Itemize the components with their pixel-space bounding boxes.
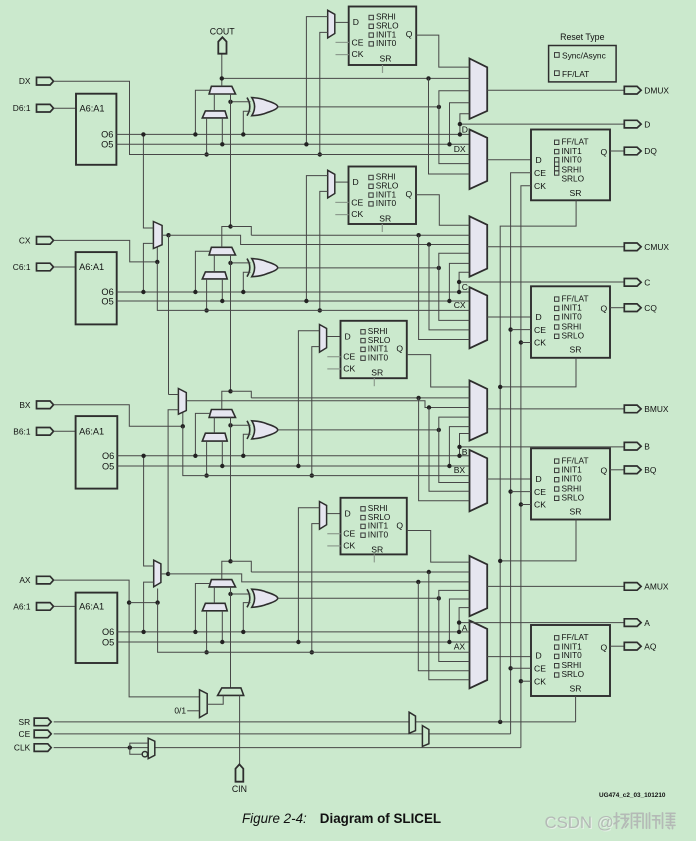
- checkbox INIT0 A5FF-C: [369, 202, 373, 206]
- pin SR input: [34, 718, 51, 726]
- wire O5 feeder column C: [449, 263, 469, 301]
- wire AX row: [158, 603, 470, 653]
- wire MUXCY C select from O6: [195, 251, 210, 292]
- arrow DQ output pin: [624, 147, 641, 155]
- wire DMUX output: [487, 89, 624, 91]
- inverter bubble CLK: [142, 752, 147, 757]
- svg-text:CK: CK: [534, 500, 546, 510]
- junction O6/XOR A: [241, 630, 245, 634]
- checkbox SRLO A5FF-D: [369, 24, 373, 28]
- wire A5FF-A mux in1 from O5: [298, 508, 319, 642]
- wire B CO branch: [231, 391, 252, 398]
- junction O6 select C: [193, 290, 197, 294]
- wire F7AMUX select: [157, 589, 159, 603]
- wire C CO branch: [231, 227, 252, 236]
- flip-flop A5FF-B block: [341, 321, 407, 378]
- svg-text:SR: SR: [380, 53, 392, 63]
- bus CE vertical: [511, 173, 531, 734]
- svg-text:UG474_c2_03_101210: UG474_c2_03_101210: [599, 792, 666, 799]
- svg-text:CK: CK: [343, 541, 355, 551]
- wire DI-mux B out to MUXCY: [213, 417, 215, 433]
- wire AX pin route: [54, 580, 200, 697]
- svg-text:AMUX: AMUX: [644, 582, 669, 592]
- wire DI-mux C left leg to CX row: [206, 279, 208, 311]
- gray stub SR A5FF-A: [373, 554, 375, 562]
- arrow D output pin: [624, 120, 641, 128]
- mux carry-DI D: [202, 111, 227, 118]
- wire CLK to bubble: [130, 748, 142, 755]
- svg-text:CX: CX: [19, 235, 31, 245]
- checkbox INIT1 BFF: [555, 468, 559, 472]
- junction O6 select D: [193, 132, 197, 136]
- junction carry/XOR A: [228, 592, 232, 596]
- junction O6/XOR B: [241, 454, 245, 458]
- wire O6 feeder column A: [459, 608, 469, 632]
- wire XOR D bottom input from O6: [243, 111, 250, 134]
- wire XOR A output: [278, 597, 439, 599]
- mux BFFMUX: [470, 450, 488, 511]
- wire AMUX output: [487, 585, 624, 587]
- svg-text:A6:A1: A6:A1: [79, 262, 104, 272]
- svg-text:DX: DX: [19, 76, 31, 86]
- pin A6:1 input: [37, 603, 54, 611]
- pin DX input: [37, 77, 54, 85]
- wire O5 row B: [117, 465, 469, 467]
- junction AX select: [155, 600, 159, 604]
- wire A5FF-C mux out to D: [335, 181, 349, 183]
- svg-text:Sync/Async: Sync/Async: [562, 51, 606, 61]
- wire O6 row D: [116, 133, 469, 135]
- svg-text:D: D: [353, 177, 359, 187]
- svg-text:CK: CK: [534, 676, 546, 686]
- junction DI left A: [204, 650, 208, 654]
- svg-text:O6: O6: [101, 130, 113, 140]
- svg-text:CMUX: CMUX: [644, 242, 669, 252]
- svg-text:COUT: COUT: [210, 26, 236, 36]
- pin D6:1 input: [37, 104, 54, 112]
- junction CO feeder A: [427, 570, 431, 574]
- wire CE rail: [54, 733, 511, 735]
- junction F7A out: [166, 572, 170, 576]
- wire CIN to PRECYINIT: [239, 695, 241, 764]
- XOR gate XORCY A: [247, 589, 250, 607]
- junction F7A to A FFmux: [416, 580, 420, 584]
- wire carry D MUXCY out to COUT: [221, 54, 223, 87]
- mux carry-DI A: [202, 603, 227, 611]
- checkbox SRHI AFF: [555, 664, 559, 668]
- wire CO line B: [251, 397, 469, 399]
- checkbox SRHI A5FF-A: [361, 507, 365, 511]
- junction DI left C: [204, 308, 208, 312]
- wire MUXCY B select from O6: [195, 413, 210, 455]
- mux DOUTMUX: [470, 59, 488, 119]
- checkbox SRLO A5FF-C: [369, 184, 373, 188]
- arrow CQ output pin: [624, 304, 641, 312]
- svg-text:SRLO: SRLO: [562, 174, 585, 184]
- checkbox SRHI BFF: [555, 487, 559, 491]
- svg-text:SR: SR: [570, 345, 582, 355]
- wire CX pin route: [54, 240, 158, 262]
- svg-text:FF/LAT: FF/LAT: [562, 69, 589, 79]
- junction C O6 to F7B: [141, 290, 145, 294]
- wire F7B out to C muxes: [169, 235, 470, 244]
- wire SR tap CFF: [500, 358, 576, 387]
- wire A5FF-A mux in2 from AX row: [312, 524, 320, 653]
- wire 0/1 mux out to PRECYINIT: [207, 695, 223, 704]
- junction CK tap B: [519, 502, 523, 506]
- junction O5/A feeder: [296, 640, 300, 644]
- svg-text:D: D: [462, 124, 468, 134]
- svg-text:SR: SR: [570, 188, 582, 198]
- svg-text:O6: O6: [102, 627, 114, 637]
- svg-text:A: A: [462, 623, 468, 633]
- wire F8MUX in1 from F7B: [169, 394, 179, 396]
- svg-text:SR: SR: [19, 717, 31, 727]
- wire A CO branch: [231, 561, 252, 572]
- wire CMUX output: [487, 246, 624, 248]
- svg-text:O5: O5: [101, 296, 113, 306]
- mux SR inline: [409, 712, 415, 733]
- junction AX-row feeder: [310, 650, 314, 654]
- svg-text:INIT0: INIT0: [562, 650, 583, 660]
- wire carry B to C: [222, 255, 231, 410]
- wire CO line A: [251, 571, 469, 573]
- checkbox INIT1 AFF: [555, 645, 559, 649]
- gray stub CE A5FF-D: [336, 41, 349, 43]
- wire XOR feeder up D: [439, 91, 470, 107]
- mux F8MUX: [178, 389, 186, 415]
- junction O5 column D: [447, 142, 451, 146]
- checkbox SRHI A5FF-B: [361, 330, 365, 334]
- junction outline/B: [457, 445, 461, 449]
- junction O5 column A: [447, 640, 451, 644]
- wire BFFMUX out to FF D: [487, 478, 531, 480]
- junction CX-row feeder: [318, 308, 322, 312]
- svg-text:SR: SR: [371, 368, 383, 378]
- checkbox SRLO CFF: [555, 334, 559, 338]
- checkbox INIT1 A5FF-A: [361, 524, 365, 528]
- junction SR tap C: [498, 385, 502, 389]
- junction DI left B: [204, 473, 208, 477]
- wire A output line: [459, 622, 624, 624]
- junction CK tap A: [519, 679, 523, 683]
- wire F7A out to A muxes: [168, 574, 469, 582]
- wire O6 feeder column B: [460, 434, 470, 456]
- svg-text:A6:1: A6:1: [13, 601, 31, 611]
- wire O5 feeder column B: [449, 427, 469, 466]
- gray stub SR A5FF-B: [373, 378, 375, 386]
- wire XOR A top input from carry: [231, 593, 251, 595]
- junction O5 column B: [447, 464, 451, 468]
- junction O5/D feeder: [304, 142, 308, 146]
- wire CO feeder down D: [429, 78, 470, 174]
- wire DI-mux B right leg to O5: [221, 441, 223, 466]
- checkbox INIT1 A5FF-D: [369, 33, 373, 37]
- wire O6 feeder column D: [460, 114, 470, 135]
- gray stub CE A5FF-C: [335, 201, 348, 203]
- gray stub CK A5FF-A: [327, 545, 340, 547]
- wire CX row: [157, 262, 469, 311]
- svg-text:INIT0: INIT0: [562, 474, 583, 484]
- flip-flop/latch DFF block: [531, 130, 610, 201]
- junction C carry-up: [228, 224, 232, 228]
- wire DI-mux A out to MUXCY: [213, 587, 215, 603]
- wire B output line: [460, 446, 625, 448]
- checkbox INIT1 DFF: [555, 149, 559, 153]
- junction O5 column C: [447, 299, 451, 303]
- wire A5FF-A mux out to D: [327, 513, 341, 515]
- wire CFFMUX out to FF D: [487, 316, 531, 318]
- checkbox INIT0 A5FF-A: [361, 533, 365, 537]
- junction CO feeder C: [416, 233, 420, 237]
- svg-text:INIT0: INIT0: [376, 38, 397, 48]
- junction AX branch: [127, 600, 131, 604]
- svg-text:D: D: [536, 651, 542, 661]
- pin AX input: [37, 576, 54, 584]
- junction CX select: [155, 260, 159, 264]
- wire Q DFF to DQ arrow: [610, 150, 624, 152]
- wire Q A5FF-C to outmux: [416, 195, 470, 225]
- wire F8 feeder down B: [429, 408, 470, 492]
- junction carry/XOR C: [228, 261, 232, 265]
- svg-text:Q: Q: [396, 344, 403, 354]
- checkbox INIT0 A5FF-B: [361, 356, 365, 360]
- svg-text:CE: CE: [534, 168, 546, 178]
- mux CFFMUX: [470, 287, 488, 348]
- junction XOR-out feeder A: [437, 596, 441, 600]
- junction CE tap C: [508, 327, 512, 331]
- wire CO line C: [251, 234, 469, 236]
- wire XOR feeder up B: [439, 417, 470, 430]
- svg-text:CE: CE: [534, 325, 546, 335]
- checkbox INIT1 A5FF-B: [361, 347, 365, 351]
- wire DI-mux A right leg to O5: [221, 611, 223, 642]
- junction BX-row feeder: [310, 473, 314, 477]
- wire CO line D: [222, 77, 470, 79]
- svg-text:CLK: CLK: [14, 743, 31, 753]
- wire BX pin route: [54, 405, 183, 427]
- junction O6 column A: [457, 630, 461, 634]
- wire O5 row D: [116, 143, 469, 145]
- checkbox FF/LAT DFF: [555, 140, 559, 144]
- svg-text:Q: Q: [601, 304, 608, 314]
- junction D CO: [220, 76, 224, 80]
- wire CO feeder down C: [419, 235, 470, 339]
- junction D O6 to F7B: [141, 132, 145, 136]
- junction O6 select B: [193, 454, 197, 458]
- mux A5FF-B input select: [320, 325, 327, 353]
- checkbox INIT1 CFF: [555, 306, 559, 310]
- svg-text:CE: CE: [351, 197, 363, 207]
- svg-text:A: A: [644, 618, 650, 628]
- svg-text:AX: AX: [454, 642, 466, 652]
- svg-text:SR: SR: [570, 683, 582, 693]
- wire carry C to D: [222, 94, 231, 247]
- wire MUXCY D select from O6: [195, 90, 210, 134]
- wire DI-mux A left leg to AX row: [206, 611, 208, 653]
- svg-text:A6:A1: A6:A1: [80, 103, 105, 113]
- junction O6 select A: [193, 630, 197, 634]
- wire O6 feeder column C: [459, 272, 469, 292]
- wire XOR C output: [278, 267, 439, 269]
- svg-text:Q: Q: [396, 521, 403, 531]
- checkbox FF/LAT AFF: [555, 636, 559, 640]
- wire F7BMUX select: [156, 247, 158, 262]
- flip-flop/latch AFF block: [531, 625, 610, 696]
- junction XOR-out feeder D: [437, 105, 441, 109]
- mux BOUTMUX: [470, 380, 488, 440]
- svg-text:CK: CK: [351, 209, 363, 219]
- wire F7B out down to F8: [168, 235, 170, 394]
- mux carry-DI C: [202, 272, 227, 279]
- wire CK tap AFF: [521, 680, 531, 682]
- wire F7AMUX in1 from B O6: [144, 456, 154, 566]
- bus SR vertical: [500, 200, 576, 722]
- checkbox SRHI A5FF-D: [369, 15, 373, 19]
- junction DX-row feeder: [318, 152, 322, 156]
- wire O5 row A: [117, 641, 469, 643]
- wire A5FF-B mux out to D: [327, 336, 341, 338]
- wire F7AMUX output: [161, 573, 168, 575]
- svg-text:C6:1: C6:1: [13, 262, 31, 272]
- pin C6:1 input: [37, 263, 54, 271]
- wire F7AMUX in2 from A O6: [144, 582, 154, 632]
- wire Q CFF to CQ arrow: [610, 307, 624, 309]
- wire F7BMUX in2 from C O6: [143, 243, 153, 292]
- wire Q BFF to BQ arrow: [610, 469, 624, 471]
- checkbox FF/LAT CFF: [555, 297, 559, 301]
- junction DI right C: [220, 299, 224, 303]
- svg-text:D: D: [345, 508, 351, 518]
- svg-text:INIT0: INIT0: [376, 198, 397, 208]
- checkbox INIT0 A5FF-D: [369, 42, 373, 46]
- wire XOR C bottom input from O6: [243, 272, 250, 292]
- wire carry A to B: [222, 417, 231, 579]
- svg-text:SRLO: SRLO: [562, 330, 585, 340]
- wire DI-mux D out to MUXCY: [213, 94, 215, 111]
- junction O5/B feeder: [296, 464, 300, 468]
- wire O5 feeder column A: [449, 599, 469, 642]
- svg-text:CK: CK: [352, 49, 364, 59]
- svg-text:CE: CE: [19, 729, 31, 739]
- wire XOR feeder down C: [439, 268, 470, 321]
- svg-text:O5: O5: [102, 461, 114, 471]
- svg-text:Reset Type: Reset Type: [560, 32, 604, 42]
- svg-text:A6:A1: A6:A1: [79, 602, 104, 612]
- svg-text:D: D: [353, 17, 359, 27]
- wire O6 row C: [117, 291, 470, 293]
- wire A5FF-B mux in2 from BX row: [312, 347, 320, 476]
- svg-text:C: C: [644, 278, 650, 288]
- legend checkbox FF/LAT: [555, 71, 560, 76]
- svg-text:Q: Q: [406, 29, 413, 39]
- wire CE tap BFF: [511, 491, 531, 493]
- mux PRECYINIT: [218, 688, 244, 696]
- mux AFFMUX: [470, 621, 488, 689]
- mux AOUTMUX: [470, 556, 488, 616]
- XOR gate XORCY D: [247, 98, 250, 116]
- wire XOR B output: [278, 429, 439, 431]
- wire CO feeder down A: [429, 572, 470, 680]
- junction CO feeder B: [416, 396, 420, 400]
- arrow A output pin: [624, 619, 641, 627]
- junction outline/C: [457, 280, 461, 284]
- junction CK tap C: [519, 340, 523, 344]
- svg-text:CK: CK: [343, 364, 355, 374]
- wire CE tap AFF: [511, 667, 531, 669]
- svg-text:D: D: [644, 119, 650, 129]
- gray stub CK A5FF-C: [335, 214, 348, 216]
- svg-text:CE: CE: [343, 529, 355, 539]
- junction DI left D: [204, 152, 208, 156]
- wire XOR B bottom input from O6: [243, 434, 250, 456]
- carry mux MUXCY D: [209, 86, 235, 94]
- wire Q A5FF-B to outmux: [407, 355, 470, 387]
- pin B6:1 input: [37, 428, 54, 436]
- wire F7A feeder down A: [418, 582, 469, 671]
- junction XOR-out feeder C: [437, 266, 441, 270]
- junction SR rail to bus: [498, 720, 502, 724]
- flip-flop/latch BFF block: [531, 448, 610, 519]
- svg-text:A6:A1: A6:A1: [79, 427, 104, 437]
- svg-text:0/1: 0/1: [174, 706, 186, 716]
- watermark glyph fu: [662, 813, 664, 829]
- checkbox SRHI CFF: [555, 325, 559, 329]
- arrow DMUX output pin: [624, 86, 641, 94]
- svg-text:CQ: CQ: [644, 303, 657, 313]
- svg-text:D6:1: D6:1: [13, 103, 31, 113]
- arrow AQ output pin: [624, 642, 641, 650]
- wire Q A5FF-A to outmux: [407, 531, 470, 563]
- wire AX to select: [129, 602, 158, 604]
- junction CE tap A: [508, 666, 512, 670]
- checkbox SRLO A5FF-A: [361, 515, 365, 519]
- wire DI-mux B left leg to BX row: [206, 441, 208, 476]
- arrow CMUX output pin: [624, 243, 641, 251]
- wire A5FF-D mux in1 from O5: [306, 17, 327, 145]
- svg-text:CX: CX: [454, 300, 466, 310]
- wire O6 row A: [117, 631, 469, 633]
- junction outline/D: [458, 122, 462, 126]
- junction F7B out: [166, 233, 170, 237]
- checkbox SRLO A5FF-B: [361, 338, 365, 342]
- svg-text:SRLO: SRLO: [562, 669, 585, 679]
- wire F7BMUX in1 from D O6: [143, 134, 153, 228]
- junction XOR-out feeder B: [437, 428, 441, 432]
- checkbox INIT0 CFF: [555, 316, 559, 320]
- svg-text:SR: SR: [570, 507, 582, 517]
- junction F8 to B FFmux: [427, 405, 431, 409]
- svg-text:CE: CE: [343, 352, 355, 362]
- svg-text:INIT0: INIT0: [368, 529, 389, 539]
- svg-text:SR: SR: [371, 545, 383, 555]
- wire B6:1 to LUT: [54, 430, 76, 432]
- junction A carry-up: [228, 559, 232, 563]
- junction O5/C feeder: [304, 299, 308, 303]
- svg-text:BX: BX: [19, 400, 31, 410]
- arrow CIN: [236, 764, 244, 781]
- wire O5 row C: [117, 300, 470, 302]
- checkbox INIT1 A5FF-C: [369, 193, 373, 197]
- checkbox stack INIT0/SRHI/SRLO DFF: [555, 158, 559, 162]
- svg-text:DMUX: DMUX: [644, 85, 669, 95]
- wire DX pin route: [54, 81, 470, 154]
- junction carry/XOR B: [228, 423, 232, 427]
- svg-text:CE: CE: [352, 37, 364, 47]
- legend box: [549, 46, 617, 82]
- wire XOR feeder down D: [439, 107, 470, 164]
- svg-text:D: D: [536, 474, 542, 484]
